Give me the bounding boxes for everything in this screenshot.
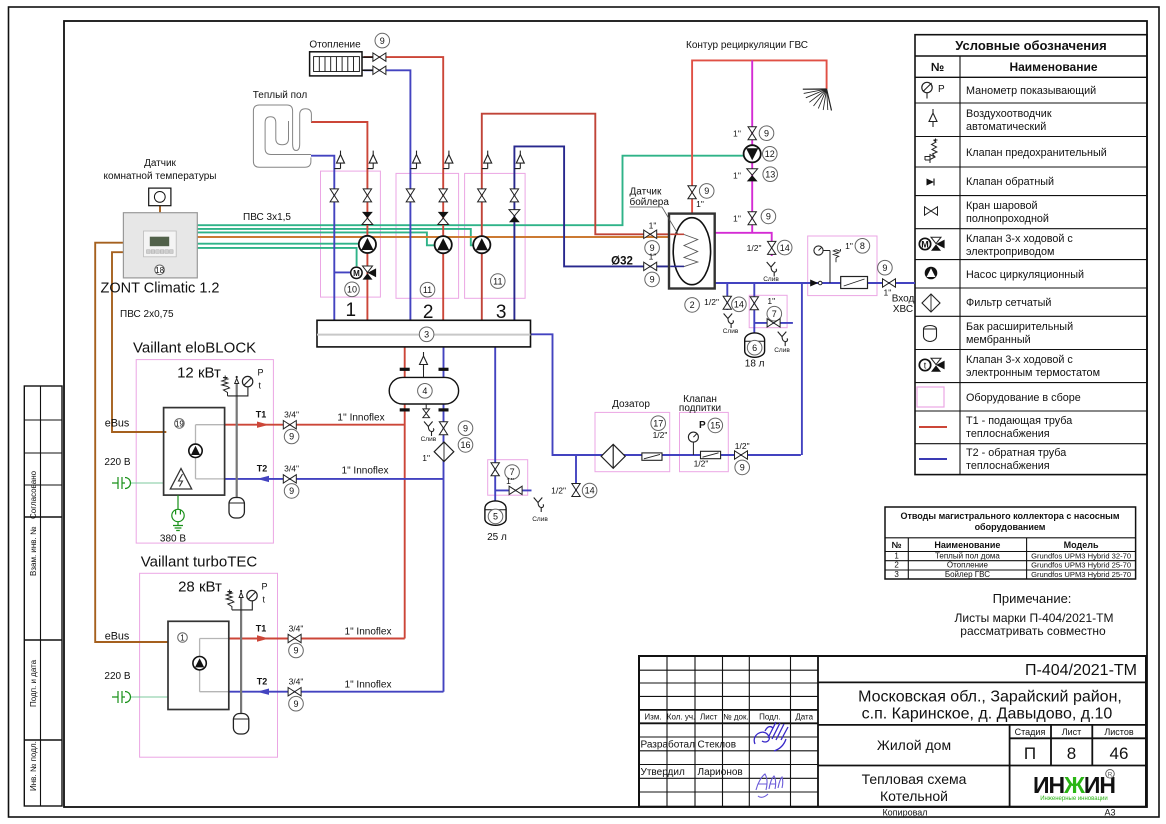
makeup drain valve 14 bbox=[572, 484, 580, 497]
svg-text:Р: Р bbox=[699, 420, 706, 431]
boiler1 T2 labels bbox=[257, 476, 269, 482]
svg-text:9: 9 bbox=[704, 186, 709, 196]
valve on coil return bbox=[644, 262, 657, 270]
svg-text:оборудованием: оборудованием bbox=[975, 522, 1046, 532]
svg-text:Grundfos UPM3 Hybrid 32-70: Grundfos UPM3 Hybrid 32-70 bbox=[1031, 551, 1131, 560]
svg-text:1'': 1'' bbox=[733, 129, 741, 139]
circle 11 group3 bbox=[491, 274, 506, 289]
svg-text:9: 9 bbox=[293, 699, 298, 709]
svg-text:3/4": 3/4" bbox=[289, 624, 304, 634]
svg-text:ИНЖИН: ИНЖИН bbox=[1033, 772, 1115, 798]
svg-text:M: M bbox=[921, 239, 929, 249]
svg-text:ПВС 2х0,75: ПВС 2х0,75 bbox=[120, 309, 174, 320]
expansion tank 5 bbox=[485, 501, 506, 525]
svg-text:1" Innoflex: 1" Innoflex bbox=[345, 680, 392, 691]
svg-text:9: 9 bbox=[380, 36, 385, 46]
svg-text:5: 5 bbox=[493, 512, 498, 522]
circle 10 group1 bbox=[345, 282, 360, 297]
pipe boiler1 T2 bbox=[225, 478, 444, 480]
svg-text:Фильтр сетчатый: Фильтр сетчатый bbox=[966, 297, 1051, 309]
legend assembled equipment bbox=[917, 387, 944, 407]
title block header labels bbox=[644, 713, 813, 722]
collector bbox=[317, 320, 531, 347]
wire 220V boiler 1 bbox=[130, 482, 164, 484]
svg-text:13: 13 bbox=[765, 169, 775, 179]
equipment pink box cw valve 7 bbox=[749, 295, 787, 327]
equipment pink box cw filter 8 bbox=[808, 236, 877, 296]
signature 2 bbox=[756, 774, 783, 797]
svg-text:220 В: 220 В bbox=[104, 457, 130, 468]
svg-text:14: 14 bbox=[585, 486, 595, 496]
shower head bbox=[803, 89, 832, 111]
svg-text:электроприводом: электроприводом bbox=[966, 246, 1054, 258]
cw inlet valve bbox=[883, 279, 896, 287]
boiler2 expansion barrel bbox=[233, 714, 248, 735]
equipment pink box boiler 1 bbox=[136, 360, 273, 543]
boiler1 pump bbox=[189, 444, 202, 457]
svg-text:Листов: Листов bbox=[1104, 727, 1133, 737]
svg-text:1: 1 bbox=[180, 634, 185, 643]
legend T1 line bbox=[919, 426, 947, 428]
svg-text:1'': 1'' bbox=[733, 170, 741, 180]
svg-text:Примечание:: Примечание: bbox=[993, 591, 1072, 606]
svg-text:8: 8 bbox=[860, 241, 865, 251]
boiler1 internal gray pipes bbox=[196, 425, 225, 479]
pipe cold water main bbox=[715, 282, 915, 284]
svg-text:2: 2 bbox=[894, 561, 899, 570]
pipe floor supply red bbox=[311, 122, 367, 320]
boiler2 safety stem bbox=[240, 597, 242, 714]
svg-text:Кран шаровой: Кран шаровой bbox=[966, 200, 1038, 212]
legend T2 line bbox=[919, 458, 947, 460]
pipe boiler2 T2 bbox=[229, 691, 444, 693]
svg-text:3: 3 bbox=[424, 330, 429, 340]
recirc pump 12 bbox=[744, 145, 761, 162]
boiler2 safety group bbox=[239, 593, 243, 598]
svg-text:9: 9 bbox=[289, 486, 294, 496]
pipe dhw drain magenta stub bbox=[771, 252, 773, 256]
svg-text:Взам. инв. №: Взам. инв. № bbox=[29, 526, 38, 576]
pipe gvs recirc top red bbox=[692, 60, 827, 213]
svg-text:6: 6 bbox=[752, 343, 757, 353]
svg-text:рассматривать совместно: рассматривать совместно bbox=[960, 624, 1106, 638]
equipment pink box group 1 bbox=[321, 171, 381, 297]
svg-text:1": 1" bbox=[767, 296, 775, 306]
svg-text:Vaillant turboTEC: Vaillant turboTEC bbox=[141, 554, 258, 571]
svg-text:Кол. уч.: Кол. уч. bbox=[667, 713, 695, 722]
svg-text:Отопление: Отопление bbox=[309, 40, 361, 51]
svg-text:Клапан обратный: Клапан обратный bbox=[966, 176, 1054, 188]
svg-text:Вход: Вход bbox=[892, 294, 915, 305]
wire green zont to pump 1 bbox=[197, 243, 359, 245]
boiler2 pump bbox=[193, 657, 206, 670]
svg-text:2: 2 bbox=[423, 302, 434, 323]
check valve group1 supply bbox=[362, 212, 373, 225]
svg-text:10: 10 bbox=[347, 285, 357, 295]
legend symbols bbox=[917, 82, 947, 459]
svg-text:8: 8 bbox=[1067, 744, 1076, 763]
svg-text:Лист: Лист bbox=[700, 713, 718, 722]
heating radiator bbox=[309, 40, 373, 76]
svg-text:Отопление: Отопление bbox=[947, 561, 989, 570]
svg-text:T1: T1 bbox=[256, 410, 267, 420]
svg-text:Теплый пол дома: Теплый пол дома bbox=[935, 551, 1000, 560]
check valve group3 return bbox=[509, 210, 520, 223]
separator flanges bbox=[400, 369, 449, 410]
title block names bbox=[641, 739, 743, 779]
svg-text:T1: T1 bbox=[256, 624, 267, 634]
svg-text:9: 9 bbox=[650, 275, 655, 285]
svg-text:автоматический: автоматический bbox=[966, 121, 1046, 133]
svg-text:11: 11 bbox=[423, 285, 432, 295]
svg-text:220 В: 220 В bbox=[104, 671, 130, 682]
svg-text:Бойлер ГВС: Бойлер ГВС bbox=[945, 570, 990, 579]
left strip labels bbox=[29, 470, 38, 791]
svg-text:1": 1" bbox=[506, 476, 514, 486]
valve on coil supply bbox=[644, 230, 657, 238]
svg-text:Насос циркуляционный: Насос циркуляционный bbox=[966, 269, 1084, 281]
svg-text:11: 11 bbox=[493, 276, 502, 286]
boiler1 warning triangle bbox=[170, 469, 191, 490]
svg-text:12: 12 bbox=[765, 149, 775, 159]
signature 1 bbox=[754, 722, 788, 751]
svg-text:1": 1" bbox=[696, 199, 704, 209]
svg-text:Дозатор: Дозатор bbox=[612, 399, 650, 410]
svg-text:9: 9 bbox=[740, 463, 745, 473]
svg-text:Датчик: Датчик bbox=[630, 187, 662, 198]
svg-text:1'': 1'' bbox=[733, 213, 741, 223]
boiler1 safety group bbox=[235, 379, 239, 384]
svg-text:ХВС: ХВС bbox=[893, 304, 913, 315]
boiler2 T2 labels bbox=[257, 689, 269, 695]
svg-text:1/2": 1/2" bbox=[653, 430, 668, 440]
svg-text:Grundfos UPM3 Hybrid 25-70: Grundfos UPM3 Hybrid 25-70 bbox=[1031, 561, 1131, 570]
svg-text:Наименование: Наименование bbox=[1009, 60, 1097, 74]
svg-text:Инженерные инновации: Инженерные инновации bbox=[1040, 796, 1108, 802]
boiler2 T1 labels bbox=[257, 635, 269, 641]
recirc check valve 13 bbox=[747, 169, 758, 182]
boiler2 internal gray pipes bbox=[200, 639, 229, 692]
separator air vent bbox=[423, 370, 425, 377]
svg-text:Слив: Слив bbox=[421, 436, 437, 443]
left margin stamp strip bbox=[24, 386, 62, 806]
wire green zont to 3way valve bbox=[197, 248, 356, 266]
legend manometer bbox=[922, 82, 932, 92]
pipe cw drain branch 2 bbox=[754, 322, 793, 324]
svg-text:eBus: eBus bbox=[105, 418, 130, 430]
svg-text:полнопроходной: полнопроходной bbox=[966, 213, 1049, 225]
svg-text:П-404/2021-ТМ: П-404/2021-ТМ bbox=[1025, 662, 1137, 679]
svg-text:14: 14 bbox=[734, 300, 744, 310]
svg-text:1": 1" bbox=[422, 453, 430, 463]
svg-text:Подп. и дата: Подп. и дата bbox=[29, 659, 38, 707]
svg-text:19: 19 bbox=[175, 419, 184, 428]
svg-text:Листы марки П-404/2021-ТМ: Листы марки П-404/2021-ТМ bbox=[955, 611, 1114, 625]
boiler2 white box bbox=[168, 621, 229, 709]
svg-text:1" Innoflex: 1" Innoflex bbox=[345, 627, 392, 638]
svg-text:P: P bbox=[258, 368, 264, 378]
svg-text:№: № bbox=[892, 540, 902, 550]
wire orange zont to boiler sensor bbox=[197, 236, 678, 238]
svg-text:T2: T2 bbox=[257, 677, 268, 687]
svg-text:1/2": 1/2" bbox=[551, 486, 566, 496]
equipment pink box dosator bbox=[595, 412, 670, 471]
svg-text:380 В: 380 В bbox=[160, 534, 186, 545]
equipment pink box boiler 2 bbox=[140, 573, 278, 757]
INJIN logo bbox=[1033, 770, 1115, 803]
pipe cold water to makeup bbox=[801, 283, 803, 455]
svg-text:Ларионов: Ларионов bbox=[698, 767, 743, 778]
wire eBus to boiler 1 bbox=[112, 252, 166, 432]
svg-text:Стадия: Стадия bbox=[1015, 727, 1046, 737]
svg-text:4: 4 bbox=[422, 386, 427, 396]
svg-text:№: № bbox=[931, 60, 944, 74]
svg-text:Теплый пол: Теплый пол bbox=[253, 90, 308, 101]
wire eBus to boiler 2 bbox=[95, 243, 168, 642]
boiler1 expansion barrel bbox=[229, 498, 244, 519]
pipe makeup drain drop bbox=[575, 455, 577, 496]
svg-text:Изм.: Изм. bbox=[644, 713, 661, 722]
svg-text:Воздухоотводчик: Воздухоотводчик bbox=[966, 108, 1052, 120]
wire room sensor stem bbox=[159, 206, 161, 213]
pump 2 radiators bbox=[435, 236, 452, 253]
svg-text:Лист: Лист bbox=[1062, 727, 1082, 737]
svg-text:мембранный: мембранный bbox=[966, 334, 1031, 346]
svg-text:Условные обозначения: Условные обозначения bbox=[955, 38, 1106, 53]
svg-text:1": 1" bbox=[884, 288, 892, 298]
svg-text:1": 1" bbox=[649, 252, 657, 262]
svg-text:Ø32: Ø32 bbox=[611, 256, 633, 268]
svg-text:1/2": 1/2" bbox=[747, 243, 762, 253]
pipe dhw loading supply red bbox=[482, 114, 684, 321]
svg-text:Vaillant eloBLOCK: Vaillant eloBLOCK bbox=[133, 340, 256, 357]
legend air vent bbox=[929, 109, 937, 127]
wire green zont to pump 12 bbox=[197, 156, 744, 226]
svg-text:3: 3 bbox=[894, 570, 899, 579]
equipment pink box tank valve 7 bbox=[488, 460, 528, 496]
svg-text:Согласовано: Согласовано bbox=[29, 470, 38, 519]
svg-text:Отводы магистрального коллекто: Отводы магистрального коллектора с насос… bbox=[900, 511, 1119, 521]
cw filter station 8 bbox=[829, 258, 831, 283]
svg-text:9: 9 bbox=[766, 212, 771, 222]
svg-text:Инв. № подл.: Инв. № подл. bbox=[29, 741, 38, 791]
valve on recirc into tank bbox=[688, 186, 696, 199]
svg-text:Слив: Слив bbox=[774, 347, 790, 354]
svg-text:3/4": 3/4" bbox=[284, 410, 299, 420]
svg-text:18 л: 18 л bbox=[745, 359, 765, 370]
svg-text:Слив: Слив bbox=[763, 276, 779, 283]
svg-text:ПВС 3х1,5: ПВС 3х1,5 bbox=[243, 212, 291, 223]
svg-text:9: 9 bbox=[463, 423, 468, 433]
recirc valve top bbox=[748, 127, 756, 140]
svg-text:9: 9 bbox=[293, 646, 298, 656]
pipe cw drain drop 1 bbox=[726, 283, 728, 310]
pipe dhw hot out magenta bbox=[715, 233, 772, 244]
svg-text:Жилой дом: Жилой дом bbox=[877, 737, 951, 753]
svg-text:1": 1" bbox=[649, 221, 657, 231]
pipe makeup line bbox=[531, 334, 801, 455]
pump table bbox=[885, 507, 1136, 579]
legend names bbox=[966, 85, 1107, 472]
pipe boiler2 T1 bbox=[229, 638, 405, 640]
valve radiator return bbox=[373, 66, 386, 74]
isolation valves on risers bbox=[330, 189, 338, 202]
pipe floor return branch to 3way bbox=[334, 271, 352, 273]
legend pump bbox=[925, 267, 938, 280]
svg-text:1/2": 1/2" bbox=[735, 441, 750, 451]
legend safety valve bbox=[925, 139, 938, 164]
svg-text:15: 15 bbox=[710, 421, 720, 431]
svg-text:Подл.: Подл. bbox=[759, 713, 781, 722]
valve radiator supply bbox=[373, 53, 386, 61]
floor heating loop bbox=[253, 105, 311, 167]
dhw drain valve 14 bbox=[768, 241, 776, 254]
wire 220V boiler 2 bbox=[130, 696, 168, 698]
svg-text:с.п. Каринское, д. Давыдово, д: с.п. Каринское, д. Давыдово, д.10 bbox=[862, 706, 1113, 723]
boiler1 T1 labels bbox=[257, 422, 269, 428]
legend ball valve bbox=[925, 207, 938, 215]
filter 16 bbox=[434, 442, 454, 462]
svg-text:Оборудование в сборе: Оборудование в сборе bbox=[966, 392, 1081, 404]
svg-text:Клапан 3-х ходовой с: Клапан 3-х ходовой с bbox=[966, 233, 1073, 245]
check valve group2 supply bbox=[438, 212, 449, 225]
svg-text:Grundfos UPM3 Hybrid 25-70: Grundfos UPM3 Hybrid 25-70 bbox=[1031, 570, 1131, 579]
svg-text:R: R bbox=[1108, 771, 1113, 778]
svg-text:2: 2 bbox=[690, 300, 695, 310]
svg-text:№ док.: № док. bbox=[723, 713, 749, 722]
svg-text:Слив: Слив bbox=[723, 328, 739, 335]
svg-text:Котельной: Котельной bbox=[880, 788, 948, 804]
svg-text:Р: Р bbox=[938, 84, 945, 95]
legend check valve bbox=[927, 179, 935, 186]
svg-text:теплоснабжения: теплоснабжения bbox=[966, 428, 1050, 440]
svg-text:17: 17 bbox=[653, 418, 663, 428]
svg-text:12 кВт: 12 кВт bbox=[177, 365, 221, 382]
equipment pink box group 2 bbox=[396, 173, 459, 298]
svg-text:9: 9 bbox=[289, 432, 294, 442]
legend 3-way motor valve bbox=[919, 238, 930, 249]
svg-text:1/2": 1/2" bbox=[704, 297, 719, 307]
pipe collector to separator red bbox=[404, 320, 406, 377]
room temperature sensor bbox=[149, 188, 171, 206]
svg-text:18: 18 bbox=[155, 266, 164, 275]
wire green zont to pump 3 bbox=[197, 229, 475, 245]
cw check valve bbox=[810, 280, 818, 287]
pump 3 dhw bbox=[473, 236, 490, 253]
svg-text:1": 1" bbox=[845, 241, 853, 251]
svg-text:Т1 - подающая труба: Т1 - подающая труба bbox=[966, 415, 1072, 427]
svg-text:16: 16 bbox=[460, 440, 470, 450]
pipe collector to separator blue bbox=[443, 320, 445, 377]
svg-text:7: 7 bbox=[772, 309, 777, 319]
svg-text:14: 14 bbox=[780, 243, 790, 253]
svg-text:Бак расширительный: Бак расширительный bbox=[966, 321, 1073, 333]
pipe expansion drain branch bbox=[495, 489, 531, 491]
svg-text:3: 3 bbox=[496, 302, 507, 323]
expansion tank 6 bbox=[745, 333, 765, 357]
svg-text:46: 46 bbox=[1110, 744, 1129, 763]
equipment pink box group 3 bbox=[465, 173, 525, 298]
legend 3-way thermostat valve bbox=[919, 359, 930, 370]
svg-text:3/4": 3/4" bbox=[284, 464, 299, 474]
svg-text:1/2": 1/2" bbox=[694, 459, 709, 469]
equipment pink box makeup valve bbox=[680, 412, 729, 471]
valve 9 below separator bbox=[439, 422, 447, 435]
pipe expansion tank line bbox=[494, 347, 496, 501]
svg-text:T2: T2 bbox=[257, 464, 268, 474]
pipe separator boiler return blue bbox=[443, 404, 445, 692]
pump 1 floor bbox=[359, 236, 376, 253]
pipe boiler1 T1 bbox=[225, 424, 405, 426]
svg-text:Контур рециркуляции ГВС: Контур рециркуляции ГВС bbox=[686, 40, 808, 51]
svg-text:9: 9 bbox=[882, 263, 887, 273]
svg-text:P: P bbox=[262, 582, 268, 592]
svg-text:комнатной температуры: комнатной температуры bbox=[104, 171, 217, 182]
svg-text:1" Innoflex: 1" Innoflex bbox=[342, 466, 389, 477]
pipe floor return blue bbox=[311, 156, 334, 321]
svg-text:теплоснабжения: теплоснабжения bbox=[966, 460, 1050, 472]
pipe separator boiler supply red bbox=[404, 404, 406, 639]
svg-text:П: П bbox=[1024, 744, 1036, 763]
svg-text:1: 1 bbox=[894, 551, 899, 560]
separator drain hook bbox=[424, 422, 434, 437]
circle 9 radiator bbox=[375, 33, 390, 48]
svg-text:Утвердил: Утвердил bbox=[641, 767, 685, 778]
legend expansion tank bbox=[924, 326, 937, 342]
legend filter bbox=[922, 294, 940, 312]
svg-text:Дата: Дата bbox=[795, 713, 813, 722]
title block bbox=[639, 656, 1146, 807]
cw drain 1 valve 14 bbox=[723, 296, 731, 309]
boiler1 safety stem bbox=[236, 383, 238, 498]
svg-text:1'' Innoflex: 1'' Innoflex bbox=[337, 413, 384, 424]
svg-text:Т2 - обратная труба: Т2 - обратная труба bbox=[966, 447, 1066, 459]
pipe cw to tank 6 bbox=[753, 283, 755, 333]
air vents risers bbox=[337, 151, 345, 169]
svg-text:Московская обл., Зарайский рай: Московская обл., Зарайский район, bbox=[858, 689, 1122, 706]
svg-text:eBus: eBus bbox=[105, 631, 130, 643]
svg-text:Клапан 3-х ходовой с: Клапан 3-х ходовой с bbox=[966, 354, 1073, 366]
svg-text:1: 1 bbox=[346, 300, 357, 321]
separator drain valve bbox=[425, 404, 427, 409]
svg-text:Стеклов: Стеклов bbox=[698, 740, 737, 751]
svg-text:Наименование: Наименование bbox=[934, 540, 1000, 550]
svg-text:Тепловая схема: Тепловая схема bbox=[862, 771, 967, 787]
3way valve with motor group1 bbox=[351, 267, 362, 278]
dhw tank 2 bbox=[669, 214, 715, 289]
boiler1 white box bbox=[164, 408, 225, 496]
svg-text:ZONT Climatic 1.2: ZONT Climatic 1.2 bbox=[101, 281, 220, 297]
hydraulic separator 4 bbox=[389, 377, 458, 404]
svg-text:А3: А3 bbox=[1104, 808, 1115, 818]
svg-text:бойлера: бойлера bbox=[630, 196, 670, 208]
svg-text:Слив: Слив bbox=[532, 516, 548, 523]
svg-text:подпитки: подпитки bbox=[679, 403, 721, 414]
pipe radiator return blue bbox=[364, 70, 411, 320]
svg-text:Копировал: Копировал bbox=[882, 808, 927, 818]
wire green zont to pump 2 bbox=[197, 232, 435, 245]
svg-text:Клапан предохранительный: Клапан предохранительный bbox=[966, 147, 1107, 159]
svg-text:25 л: 25 л bbox=[487, 532, 507, 543]
svg-text:Разработал: Разработал bbox=[641, 739, 696, 751]
pipe dhw loading return navy bbox=[514, 146, 684, 320]
recirc valve bottom bbox=[748, 212, 756, 225]
cw box 7 valves bbox=[750, 297, 758, 310]
circle 11 group2 bbox=[420, 282, 435, 297]
svg-text:9: 9 bbox=[764, 128, 769, 138]
svg-text:Датчик: Датчик bbox=[144, 158, 176, 169]
svg-text:Модель: Модель bbox=[1064, 540, 1099, 550]
